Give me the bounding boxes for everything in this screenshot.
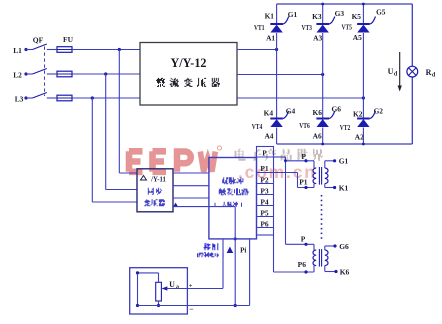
- svg-text:L3: L3: [15, 95, 24, 104]
- svg-text:P4: P4: [260, 198, 269, 207]
- svg-text:G1: G1: [339, 157, 349, 166]
- svg-text:U: U: [388, 67, 394, 76]
- svg-text:P3: P3: [260, 187, 269, 196]
- pulse transformer for VT1: [299, 152, 348, 192]
- svg-text:K2: K2: [353, 109, 363, 118]
- transformer Y/Y-12 rectifier transformer box: [140, 43, 237, 106]
- thyristor VT2: [340, 106, 384, 141]
- wire sync out 3: [173, 197, 209, 199]
- svg-text:VT3: VT3: [301, 23, 312, 32]
- svg-text:A2: A2: [355, 133, 364, 142]
- wire L2 tap to sync transformer: [104, 72, 137, 189]
- thyristor VT6: [299, 105, 341, 141]
- breaker QF: [26, 36, 47, 99]
- svg-text:G2: G2: [374, 106, 384, 115]
- svg-text:K4: K4: [264, 109, 274, 118]
- svg-text:L2: L2: [13, 71, 22, 80]
- svg-text:G1: G1: [288, 10, 298, 19]
- svg-text:VT2: VT2: [340, 123, 351, 132]
- svg-text:VT5: VT5: [341, 23, 352, 32]
- svg-text:G5: G5: [376, 8, 386, 17]
- transformer sync delta/Y-11 box: [137, 169, 173, 212]
- svg-text:G4: G4: [286, 106, 296, 115]
- wire VT1/VT4 column: [276, 4, 278, 144]
- svg-text:G6: G6: [331, 105, 341, 114]
- svg-text:A4: A4: [264, 132, 273, 141]
- pins A(common) and Pi under trigger box: [223, 239, 250, 306]
- thyristor VT1: [254, 10, 297, 43]
- svg-text:K6: K6: [312, 108, 322, 117]
- svg-text:Pi: Pi: [240, 247, 246, 255]
- control voltage source box: [130, 268, 188, 314]
- svg-text:VT6: VT6: [299, 121, 310, 130]
- wire L3 to transformer: [47, 97, 140, 99]
- svg-text:QF: QF: [33, 36, 44, 45]
- svg-text:VT4: VT4: [252, 122, 263, 131]
- svg-text:A1: A1: [266, 34, 275, 43]
- wire P6 to pulse transformer: [274, 235, 315, 274]
- svg-text:K3: K3: [312, 12, 322, 21]
- wire VT5/VT2 column: [362, 4, 364, 144]
- svg-text:P6: P6: [298, 260, 307, 269]
- wire P common: [274, 157, 315, 250]
- svg-text:L1: L1: [13, 46, 22, 55]
- svg-text:P1: P1: [260, 164, 269, 173]
- wire phase a: [237, 48, 278, 51]
- wire wiper (+) to pin A: [161, 283, 223, 291]
- svg-text:P5: P5: [260, 209, 269, 218]
- wire top bus (cathode bus): [277, 3, 413, 6]
- svg-text:K1: K1: [339, 184, 349, 193]
- trigger circuit box (double-pulse): [209, 158, 257, 239]
- terminal column P,P1-P6: [257, 147, 274, 236]
- svg-text:P2: P2: [260, 176, 269, 185]
- svg-text:K6: K6: [340, 268, 350, 277]
- wire P1 to pulse transformer: [274, 173, 315, 190]
- svg-text:P: P: [301, 235, 306, 244]
- svg-text:VT1: VT1: [254, 23, 265, 32]
- svg-text:a: a: [176, 285, 179, 291]
- svg-text:U: U: [169, 280, 175, 289]
- node L3: [15, 95, 28, 104]
- wire L1 to transformer: [47, 49, 140, 51]
- wire L1 tap to sync transformer: [118, 48, 137, 173]
- ellipsis dotted line: [321, 195, 323, 240]
- svg-text:A5: A5: [353, 33, 362, 42]
- wire bottom bus (anode bus): [277, 143, 413, 146]
- svg-text:FU: FU: [63, 35, 74, 44]
- wire L3 tap to sync transformer: [91, 96, 137, 202]
- wire right bus: [411, 4, 413, 144]
- node L2: [13, 71, 27, 80]
- thyristor VT5: [341, 8, 385, 43]
- fuse FU (three): [57, 35, 74, 101]
- wire (-) bottom: [138, 304, 250, 313]
- wire sync out 1: [173, 172, 209, 174]
- svg-text:K5: K5: [352, 12, 362, 21]
- svg-text:G3: G3: [335, 9, 345, 18]
- svg-text:G6: G6: [339, 242, 349, 251]
- svg-text:P: P: [262, 148, 267, 157]
- wire sync common with marker: [173, 203, 237, 308]
- svg-text:A3: A3: [313, 34, 322, 43]
- potentiometer RP: [136, 271, 179, 307]
- svg-text:K1: K1: [265, 12, 275, 21]
- svg-text:−: −: [189, 304, 193, 313]
- label phase-shift control voltage: [197, 243, 224, 257]
- svg-text:R: R: [426, 68, 432, 77]
- svg-text:A6: A6: [313, 132, 322, 141]
- thyristor VT4: [252, 106, 296, 140]
- wire phase c: [237, 96, 365, 99]
- wire L2 to transformer: [47, 73, 140, 75]
- svg-text:+: +: [189, 283, 193, 290]
- thyristor VT3: [301, 9, 344, 43]
- wire VT3/VT6 column: [322, 4, 324, 144]
- wire sync out 2: [173, 185, 209, 187]
- node L1: [13, 46, 27, 55]
- svg-text:P6: P6: [260, 220, 269, 229]
- svg-text:Y/Y-12: Y/Y-12: [171, 56, 207, 70]
- svg-text:/Y-11: /Y-11: [150, 177, 166, 184]
- pulse transformer for VT6: [298, 235, 350, 277]
- svg-text:P1: P1: [299, 177, 308, 186]
- svg-text:P: P: [301, 152, 306, 161]
- lamp load Rd: [407, 66, 436, 78]
- wire phase b: [237, 73, 324, 76]
- label Ud with arrow: [388, 52, 402, 92]
